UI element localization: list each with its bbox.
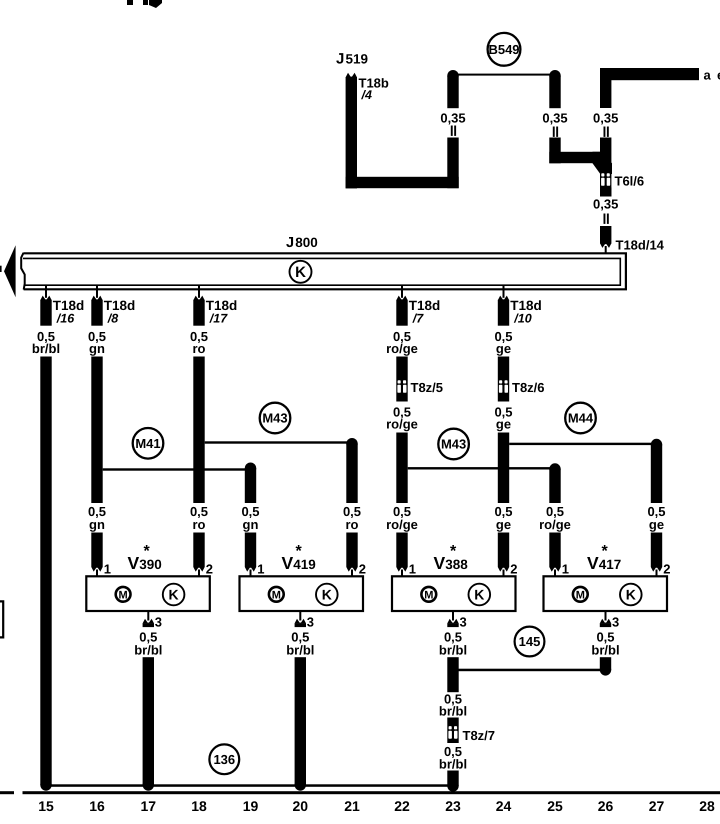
wire reference 136 xyxy=(209,744,239,774)
bus bar break line xyxy=(21,253,25,290)
wire label 0,5 gn track 19 xyxy=(241,504,259,532)
wire ge track 24 lower xyxy=(498,433,509,504)
svg-text:2: 2 xyxy=(663,562,670,577)
wire reference 145 xyxy=(515,627,545,657)
svg-text:19: 19 xyxy=(243,798,259,814)
svg-text:1: 1 xyxy=(409,562,416,577)
wire br/bl track 20 to ground xyxy=(295,657,306,791)
wire splice column B lower segment xyxy=(447,138,458,189)
connector T8z/6 xyxy=(499,380,508,393)
motor symbol M in V417 xyxy=(573,587,588,602)
wire reference M43 left xyxy=(260,403,291,434)
wire label 0,5 br/bl under V390 xyxy=(134,630,162,658)
svg-text:/16: /16 xyxy=(56,312,75,326)
svg-text:T8z/6: T8z/6 xyxy=(512,380,545,395)
svg-text:17: 17 xyxy=(141,798,157,814)
wire gn track 16 xyxy=(91,357,102,504)
svg-text:K: K xyxy=(474,587,484,603)
wire ro track 18 xyxy=(193,357,204,504)
connector T8z/5 xyxy=(397,380,406,393)
sensor B549 xyxy=(488,33,521,66)
pin label T18d/7 xyxy=(409,298,441,325)
wire lower segment track 19 with pin arrow xyxy=(245,533,256,577)
wire column D lower segment xyxy=(600,138,611,197)
svg-text:1: 1 xyxy=(104,562,111,577)
svg-text:23: 23 xyxy=(445,798,461,814)
bus bar J800 inner xyxy=(23,258,620,285)
svg-text:M44: M44 xyxy=(568,411,594,426)
motor V419 box xyxy=(240,576,364,611)
wire br/bl track 23 upper xyxy=(447,657,458,692)
svg-text:18: 18 xyxy=(191,798,207,814)
wire stub ro/ge track 25 xyxy=(549,463,560,503)
wire column C upper segment xyxy=(549,70,560,108)
pin 3 of V388 xyxy=(447,612,458,627)
svg-text:M: M xyxy=(272,589,281,601)
svg-text:15: 15 xyxy=(38,798,54,814)
svg-text:25: 25 xyxy=(547,798,563,814)
pin 3 of V419 xyxy=(295,612,306,627)
svg-text:28: 28 xyxy=(699,798,715,814)
wire label 0,5 gn xyxy=(88,329,106,356)
wire label 0,5 br/bl track 23 xyxy=(439,692,467,719)
svg-text:ge: ge xyxy=(496,341,511,356)
svg-text:J519: J519 xyxy=(336,51,368,68)
svg-text:M: M xyxy=(119,589,128,601)
svg-text:/8: /8 xyxy=(107,312,118,326)
wire tap from J800 track 15 xyxy=(40,285,51,326)
ground rail left stub xyxy=(0,791,14,794)
svg-text:K: K xyxy=(626,587,636,603)
wire tap from J800 track 24 xyxy=(498,285,509,326)
wire branch ge track24 to track27 xyxy=(509,443,656,445)
wire into J800 with arrow xyxy=(600,226,611,259)
wire column D upper segment xyxy=(600,80,611,108)
svg-text:0,35: 0,35 xyxy=(593,196,618,211)
svg-text:2: 2 xyxy=(359,562,366,577)
svg-text:K: K xyxy=(169,587,179,603)
svg-text:145: 145 xyxy=(519,634,541,649)
svg-text:ro/ge: ro/ge xyxy=(539,517,571,532)
svg-text:ge: ge xyxy=(649,517,664,532)
wire lower segment track 25 with pin arrow xyxy=(549,533,560,577)
wire label 0,5 ro/ge track 22 xyxy=(386,504,418,532)
ground rail xyxy=(23,791,720,794)
wire br/bl track 23 lower xyxy=(447,771,458,792)
svg-text:2: 2 xyxy=(206,562,213,577)
svg-text:ro: ro xyxy=(193,341,206,356)
wire column C lower segment xyxy=(549,138,612,175)
wire ge track 24 upper xyxy=(498,357,509,402)
wire branch ro/ge track22 to track25 xyxy=(408,467,555,469)
wire label 0,5 br/bl under V419 xyxy=(286,630,314,658)
svg-text:0,35: 0,35 xyxy=(593,110,618,125)
svg-text:0,35: 0,35 xyxy=(542,110,567,125)
wire lower segment track 21 with pin arrow xyxy=(346,533,357,577)
wire label 0,5 br/bl under V388 xyxy=(439,630,467,658)
wire label 0,5 ge track 27 xyxy=(647,504,665,532)
component label V417 xyxy=(587,543,621,573)
wire ro/ge track 22 upper xyxy=(396,357,407,402)
pin label T18b/4 xyxy=(359,76,389,103)
bus symbol K in V419 xyxy=(316,584,338,606)
bus symbol K xyxy=(290,261,312,283)
cut-off header marks xyxy=(127,0,162,8)
svg-text:ge: ge xyxy=(496,517,511,532)
wire label 0,5 ro track 21 xyxy=(343,504,361,532)
label a e (cut off) xyxy=(704,68,720,83)
svg-text:gn: gn xyxy=(89,517,105,532)
wire label 0,5 br/bl xyxy=(32,329,60,356)
svg-text:ro/ge: ro/ge xyxy=(386,517,418,532)
svg-text:T8z/7: T8z/7 xyxy=(463,728,496,743)
wire label 0,5 ro xyxy=(190,329,208,356)
splice symbol xyxy=(451,126,456,136)
wire top feed bar xyxy=(600,68,699,80)
pin 3 of V390 xyxy=(143,612,154,627)
continuation arrow left xyxy=(4,245,16,297)
wire stub ge track 27 xyxy=(651,439,662,503)
wire stub br/bl track 26 xyxy=(600,657,611,675)
svg-text:ro: ro xyxy=(346,517,359,532)
wire branch gn track16 to track19 xyxy=(103,468,251,470)
svg-text:K: K xyxy=(295,264,306,281)
wire label 0,5 br/bl below T8z/7 xyxy=(439,744,467,772)
svg-text:br/bl: br/bl xyxy=(439,643,467,658)
svg-text:136: 136 xyxy=(213,752,235,767)
wire lower segment track 22 with pin arrow xyxy=(396,533,407,577)
svg-text:/10: /10 xyxy=(513,312,531,326)
wire reference M43 right xyxy=(438,429,469,460)
bus symbol K in V417 xyxy=(620,584,642,606)
wire lower segment track 16 with pin arrow xyxy=(91,533,102,577)
wire br/bl track 23 middle xyxy=(447,718,458,744)
svg-text:M43: M43 xyxy=(441,437,466,452)
svg-text:1: 1 xyxy=(257,562,264,577)
connector arrow T18b/4 at J519 xyxy=(346,73,357,78)
wire label 0,5 ro/ge xyxy=(386,405,418,432)
component label V388 xyxy=(434,543,469,573)
svg-text:ro/ge: ro/ge xyxy=(386,417,418,432)
wire lower segment track 18 with pin arrow xyxy=(193,533,204,577)
svg-text:br/bl: br/bl xyxy=(591,643,619,658)
svg-text:ge: ge xyxy=(496,417,511,432)
svg-text:ro: ro xyxy=(193,517,206,532)
svg-text:T8z/5: T8z/5 xyxy=(411,380,444,395)
svg-text:26: 26 xyxy=(598,798,614,814)
motor symbol M in V419 xyxy=(269,587,284,602)
svg-text:/4: /4 xyxy=(361,88,372,102)
wire br/bl track 15 to ground xyxy=(40,357,51,791)
svg-text:M43: M43 xyxy=(262,411,287,426)
wire label 0,5 ge track 24 xyxy=(494,504,512,532)
svg-text:27: 27 xyxy=(649,798,665,814)
connector T8z/7 xyxy=(448,726,457,739)
thin wire link to B549 branch xyxy=(453,74,555,76)
wire label 0,5 gn track 16 xyxy=(88,504,106,532)
svg-text:a: a xyxy=(704,68,712,83)
wire splice column B upper segment xyxy=(447,70,458,108)
svg-text:16: 16 xyxy=(89,798,105,814)
svg-text:ro/ge: ro/ge xyxy=(386,341,418,356)
wire reference M44 xyxy=(565,403,596,434)
bus bar J800 outer xyxy=(23,253,626,289)
motor symbol M in V388 xyxy=(421,587,436,602)
svg-text:br/bl: br/bl xyxy=(439,704,467,719)
connector T6l/6 xyxy=(601,173,610,186)
svg-text:/7: /7 xyxy=(412,312,424,326)
svg-text:3: 3 xyxy=(460,615,467,630)
splice symbol xyxy=(553,127,558,137)
wire label 0,5 br/bl under V417 xyxy=(591,630,619,658)
pin label T18d/17 xyxy=(206,298,238,325)
wire reference M41 xyxy=(133,428,164,459)
wire branch ro track18 to track21 xyxy=(205,441,352,443)
wire below T6l/6 xyxy=(600,188,611,197)
svg-text:gn: gn xyxy=(243,517,259,532)
wire lower segment track 27 with pin arrow xyxy=(651,533,662,577)
wire label 0,5 ge xyxy=(494,405,512,432)
partial component box at left edge xyxy=(0,601,3,637)
svg-text:20: 20 xyxy=(293,798,309,814)
svg-text:J800: J800 xyxy=(286,235,318,251)
wire stub gn track 19 xyxy=(245,463,256,504)
svg-text:3: 3 xyxy=(307,615,314,630)
bus symbol K in V390 xyxy=(163,584,185,606)
motor V417 box xyxy=(544,576,668,611)
svg-text:M: M xyxy=(576,589,585,601)
svg-text:0,35: 0,35 xyxy=(440,110,465,125)
component label V419 xyxy=(282,543,316,573)
ground link wire track15 to track23 xyxy=(46,784,453,787)
wire label 0,5 ro/ge track 25 xyxy=(539,504,571,532)
svg-text:br/bl: br/bl xyxy=(32,341,60,356)
wire label 0,5 ro/ge xyxy=(386,329,418,356)
edge arrow sliver xyxy=(0,266,2,272)
svg-text:T18d/14: T18d/14 xyxy=(616,238,665,253)
wire J519 vertical (0,35) xyxy=(346,77,357,188)
motor V388 box xyxy=(392,576,516,611)
motor V390 box xyxy=(86,576,210,611)
svg-text:/17: /17 xyxy=(209,312,228,326)
pin label T18d/10 xyxy=(510,298,542,325)
wire label 0,5 ge xyxy=(494,329,512,356)
wire bottom horizontal to splice column xyxy=(346,177,459,188)
svg-text:3: 3 xyxy=(155,615,162,630)
svg-text:B549: B549 xyxy=(488,42,519,57)
svg-text:K: K xyxy=(322,587,332,603)
svg-text:br/bl: br/bl xyxy=(134,643,162,658)
wire tap from J800 track 16 xyxy=(91,285,102,326)
wire label 0,5 ro track 18 xyxy=(190,504,208,532)
svg-text:22: 22 xyxy=(394,798,410,814)
splice symbol xyxy=(604,214,609,224)
pin label T18d/16 xyxy=(53,298,85,325)
wire stub ro track 21 xyxy=(346,438,357,503)
svg-text:M: M xyxy=(424,589,433,601)
motor symbol M in V390 xyxy=(116,587,131,602)
wire lower segment track 24 with pin arrow xyxy=(498,533,509,577)
splice symbol xyxy=(604,127,609,137)
svg-text:gn: gn xyxy=(89,341,105,356)
component label V390 xyxy=(128,543,162,573)
pin 3 of V417 xyxy=(600,612,611,627)
wire tap from J800 track 18 xyxy=(193,285,204,326)
svg-text:3: 3 xyxy=(612,615,619,630)
pin label T18d/8 xyxy=(104,298,136,325)
svg-text:T6l/6: T6l/6 xyxy=(615,174,645,189)
bus symbol K in V388 xyxy=(469,584,491,606)
svg-text:24: 24 xyxy=(496,798,512,814)
svg-text:M41: M41 xyxy=(135,436,160,451)
svg-text:br/bl: br/bl xyxy=(439,757,467,772)
wire br/bl track 17 to ground xyxy=(143,657,154,791)
wire ro/ge track 22 lower xyxy=(396,433,407,504)
svg-text:1: 1 xyxy=(562,562,569,577)
wire junction track23 to track26 xyxy=(453,669,606,672)
svg-text:br/bl: br/bl xyxy=(286,643,314,658)
wire tap from J800 track 22 xyxy=(396,285,407,326)
svg-text:2: 2 xyxy=(510,562,517,577)
svg-text:21: 21 xyxy=(344,798,360,814)
